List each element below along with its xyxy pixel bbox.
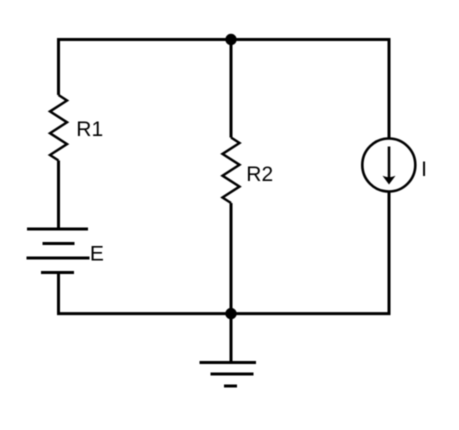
svg-text:E: E (90, 243, 104, 266)
svg-text:I: I (421, 158, 427, 181)
svg-text:R2: R2 (246, 163, 273, 186)
svg-text:R1: R1 (76, 118, 103, 141)
